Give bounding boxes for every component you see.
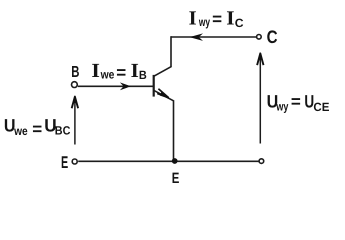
svg-text:B: B: [71, 64, 79, 81]
wire : emitter vertical drop: [173, 100, 175, 161]
node C terminal circle: [257, 35, 262, 40]
wire : bottom emitter rail: [78, 160, 259, 162]
svg-text:BC: BC: [55, 124, 71, 138]
transistor Q1 : collector diagonal: [154, 66, 172, 76]
label I_we = I_B: [91, 60, 147, 82]
svg-text:=: =: [32, 119, 42, 138]
wire : U_wy voltage arrow (pointing up): [259, 58, 261, 144]
node : emitter junction dot: [172, 158, 178, 164]
wire : arrowhead on top wire (current I_wy, pointing left): [189, 33, 203, 41]
label U_we = U_BC: [4, 115, 71, 138]
svg-text:E: E: [172, 170, 180, 187]
svg-text:=: =: [212, 9, 222, 28]
svg-text:=: =: [116, 63, 126, 82]
wire : base wire from B terminal: [78, 85, 153, 87]
svg-text:we: we: [13, 124, 28, 138]
svg-text:wy: wy: [198, 15, 210, 29]
wire : U_we voltage arrow (pointing up): [74, 101, 76, 145]
svg-text:C: C: [267, 27, 278, 47]
svg-text:I: I: [226, 8, 235, 30]
wire : collector vertical drop: [170, 36, 172, 67]
svg-text:CE: CE: [313, 100, 329, 114]
svg-text:E: E: [61, 153, 68, 172]
wire : arrowhead on base wire (current I_we, pointing right): [120, 82, 131, 90]
svg-text:wy: wy: [276, 99, 289, 113]
svg-text:I: I: [91, 60, 100, 82]
label U_wy = U_CE: [267, 91, 330, 114]
transistor Q1 : base bar: [153, 75, 155, 97]
wire : top collector wire: [171, 36, 256, 38]
node B terminal circle: [72, 82, 78, 88]
label I_wy = I_C: [189, 8, 244, 30]
node : right terminal circle (bottom): [259, 159, 264, 164]
svg-text:we: we: [100, 68, 115, 82]
transistor Q1 : emitter diagonal: [154, 90, 174, 100]
svg-text:B: B: [139, 68, 147, 82]
transistor Q1 : emitter arrowhead: [158, 89, 168, 98]
svg-text:=: =: [291, 92, 301, 111]
node E terminal circle (left): [72, 159, 77, 164]
svg-text:I: I: [189, 8, 197, 30]
svg-text:I: I: [131, 60, 139, 82]
svg-text:C: C: [235, 16, 244, 30]
